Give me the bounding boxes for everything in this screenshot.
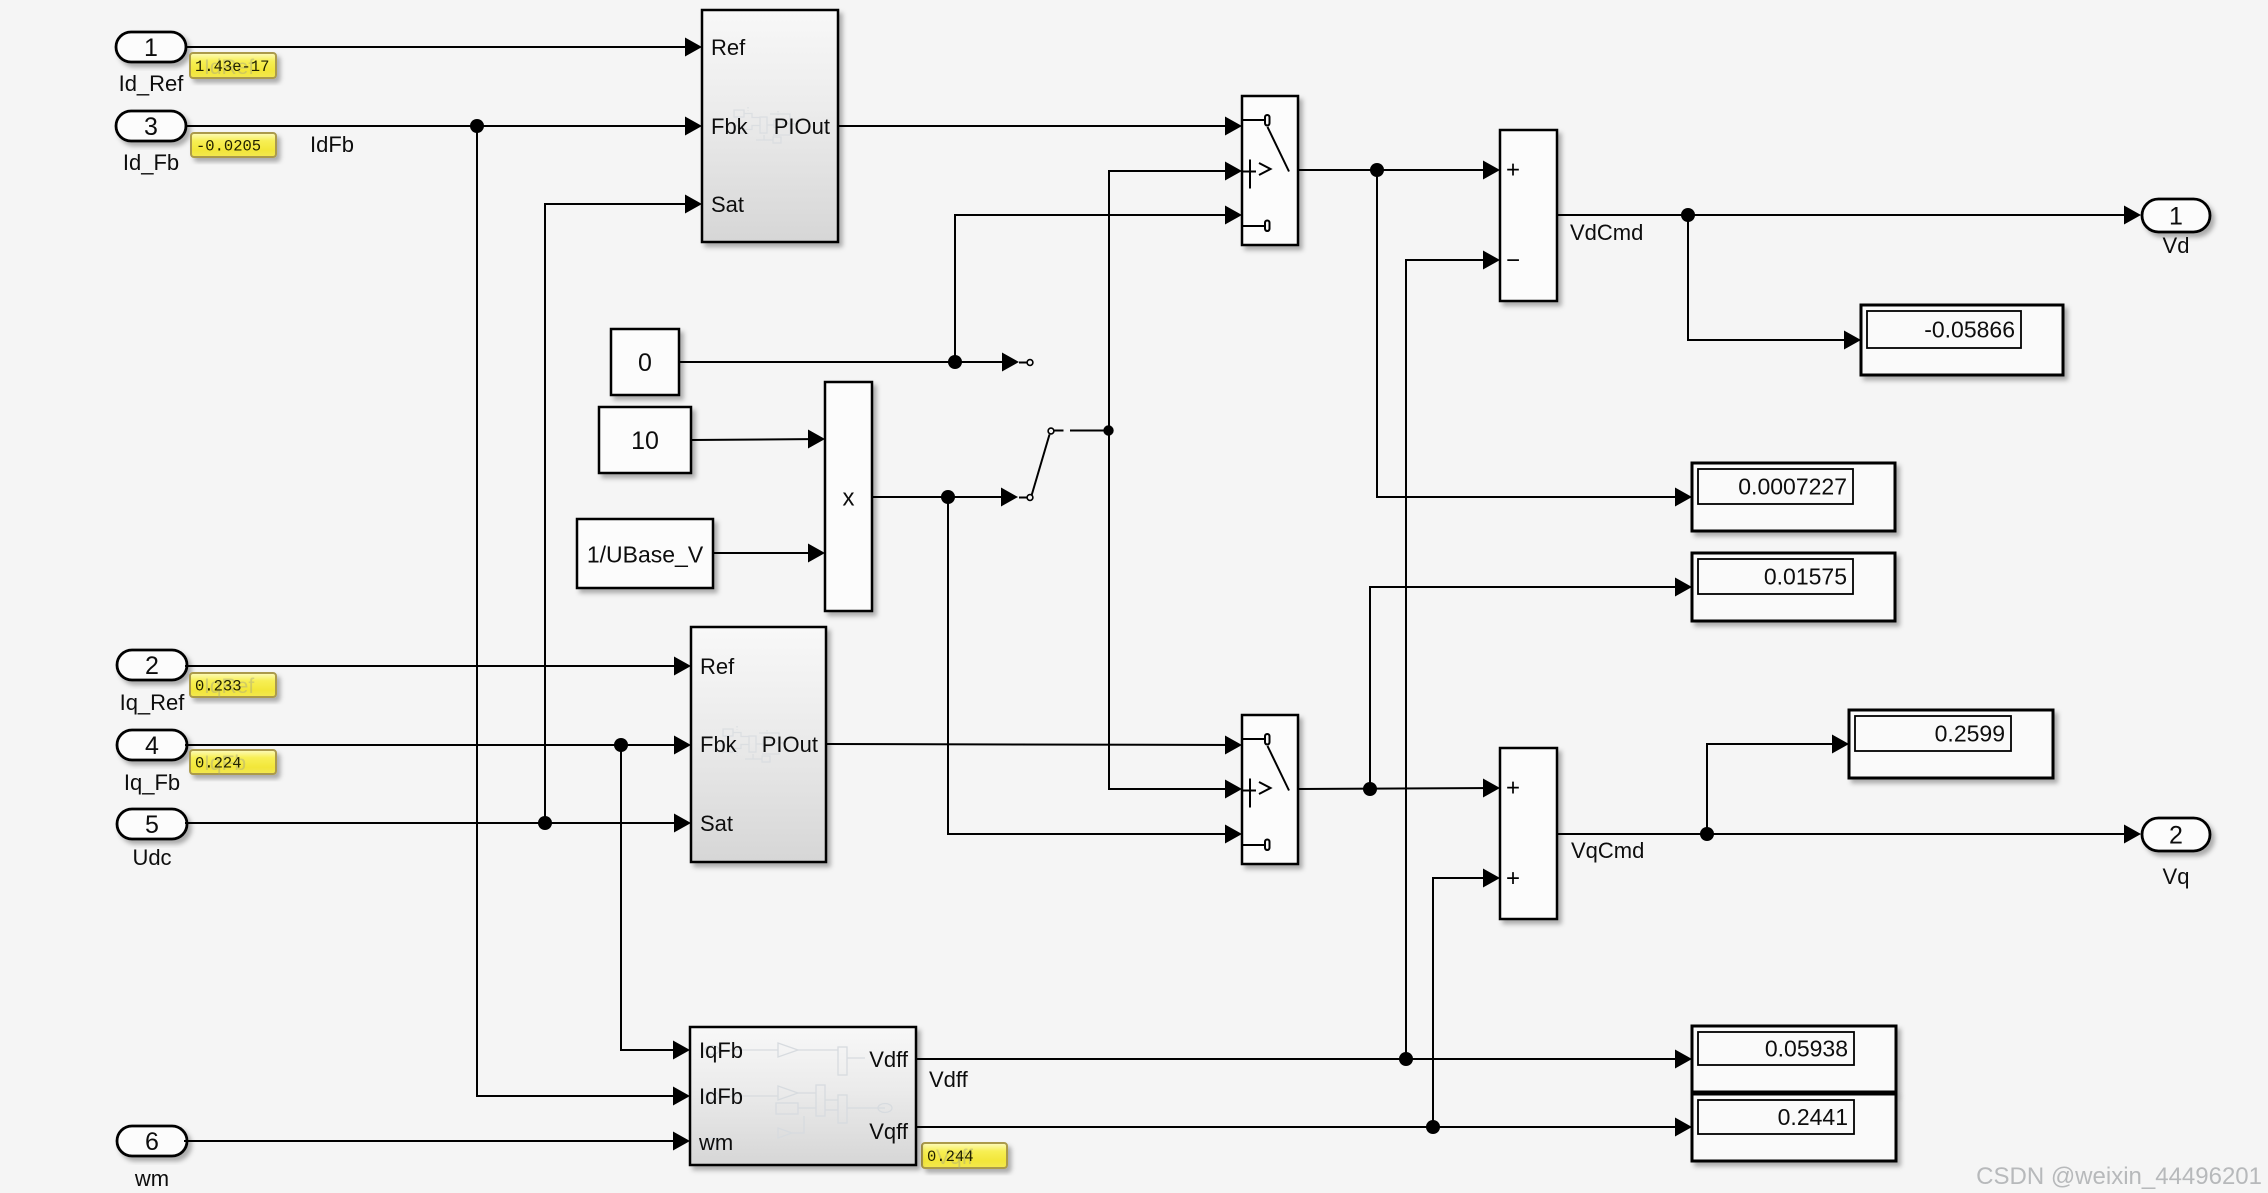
junction on Udc wire [538,816,552,830]
wire product out to manual switch throw [872,496,1016,498]
svg-text:10: 10 [631,427,659,455]
junction VqCmd [1700,827,1714,841]
manual switch lever [1032,435,1050,496]
svg-text:Vq: Vq [2163,864,2190,889]
feed-forward decoupling subsystem (IqFb/IdFb/wm -> Vdff/Vqff) [690,1027,916,1165]
junction on product out wire [941,490,955,504]
outport 1 Vd [2142,199,2210,258]
wire VqCmd branch to display 0.2599 [1707,744,1847,834]
display 0.2599 (VqCmd) [1849,710,2053,778]
wire manual switch to control bus [1055,430,1064,432]
PI controller subsystem U_d (Ref/Fbk/Sat -> PIOut) [702,10,838,242]
wire Id_Ref to PI_d Ref [186,46,700,48]
svg-text:Ref: Ref [711,35,746,60]
svg-text:0.0007227: 0.0007227 [1738,474,1847,500]
svg-text:0.224: 0.224 [195,755,242,773]
svg-text:Iq_Fb: Iq_Fb [124,770,180,795]
wire Vqff up to sum2 + (lower) [1433,878,1498,1127]
display -0.05866 (VdCmd) [1861,305,2063,375]
wire wm to FF wm [184,1140,688,1142]
svg-text:+: + [1506,157,1520,184]
svg-text:Vdff: Vdff [869,1047,909,1072]
svg-text:Vd: Vd [2163,233,2190,258]
wire control bus up to switch1 in2 [1109,171,1240,430]
wire FF Vdff to display 0.05938 [916,1058,1690,1060]
wire switch1 out to sum1 + [1298,169,1498,171]
display 0.01575 (switch2 out) [1692,553,1895,621]
svg-text:wm: wm [698,1130,733,1155]
manual switch open contact circle [1019,362,1027,364]
value label 0.224 on Iq_Fb [190,750,276,775]
sum block VqCmd (+ +) [1500,748,1557,919]
svg-text:2: 2 [2169,822,2183,850]
svg-text:1/UBase_V: 1/UBase_V [587,542,704,568]
svg-text:0.233: 0.233 [195,678,242,696]
svg-text:Iq_Ref: Iq_Ref [120,690,186,715]
svg-text:Fbk: Fbk [700,732,738,757]
constant 1/UBase_V [577,519,713,588]
junction on Id_Fb wire [470,119,484,133]
sum block VdCmd (+ -) [1500,130,1557,301]
wire switch2 out branch to display 0.01575 [1370,587,1690,789]
wire 1/UBase_V to product in2 [713,552,823,554]
wire Iq_Ref to PI_q Ref [185,665,689,667]
junction switch2 out [1363,782,1377,796]
svg-text:PIOut: PIOut [762,732,818,757]
inport 2 Iq_Ref [117,650,187,715]
wire constant0 branch up to switch1 in3 [955,215,1240,362]
svg-text:1: 1 [144,34,158,62]
svg-text:0.05938: 0.05938 [1765,1036,1848,1062]
wire Id_Fb to PI_d Fbk [186,125,700,127]
svg-text:Sat: Sat [700,811,733,836]
display 0.05938 (Vdff) [1692,1026,1896,1092]
wire constant0 to manual switch (open) [679,361,1017,363]
inport 6 wm [117,1126,187,1191]
junction on constant0 wire [948,355,962,369]
wire constant10 to product in1 [691,439,823,440]
wire sum2 out to outport Vq [1557,833,2139,835]
wire IqFb branch down to FF IqFb [621,745,688,1050]
svg-text:0.01575: 0.01575 [1764,564,1847,590]
wire sum1 out to outport Vd [1557,214,2139,216]
junction Vqff [1426,1120,1440,1134]
wire Vdff up to sum1 minus [1406,260,1498,1059]
wire Iq_Fb to PI_q Fbk [185,744,689,746]
wire VdCmd branch to display -0.05866 [1688,215,1859,340]
svg-text:IdFb: IdFb [310,132,354,157]
svg-text:Vqff: Vqff [869,1119,909,1144]
svg-text:Udc: Udc [132,845,171,870]
value label 1.43e-17 on Id_Ref [190,53,276,79]
svg-text:0.244: 0.244 [927,1148,974,1166]
svg-text:Fbk: Fbk [711,114,749,139]
svg-text:Id_Ref: Id_Ref [119,71,185,96]
svg-text:0.2599: 0.2599 [1935,721,2005,747]
inport 4 Iq_Fb [117,730,187,795]
svg-text:-0.0205: -0.0205 [196,138,261,156]
svg-text:0: 0 [638,349,652,377]
svg-text:VqCmd: VqCmd [1571,838,1644,863]
junction switch1 out [1370,163,1384,177]
svg-text:x: x [843,485,855,512]
svg-text:5: 5 [145,811,159,839]
svg-text:+: + [1506,865,1520,892]
svg-text:CSDN @weixin_44496201: CSDN @weixin_44496201 [1976,1163,2262,1190]
wire switch1 out branch to display 0.0007227 [1377,170,1690,497]
wire PI_q PIOut to switch2 in1 [826,744,1240,745]
constant 0 [611,329,679,395]
svg-text:PIOut: PIOut [774,114,830,139]
inport 1 Id_Ref [116,32,186,96]
svg-text:4: 4 [145,732,159,760]
svg-text:Vdff: Vdff [929,1067,969,1092]
wire PI_d PIOut to switch1 in1 [838,125,1240,127]
wire Udc branch up to PI_d Sat [545,204,700,823]
svg-text:Ref: Ref [700,654,735,679]
wire switch2 out to sum2 + [1298,788,1498,789]
wire product branch down to switch2 in3 [948,497,1240,834]
outport 2 Vq [2142,818,2210,889]
svg-text:IqFb: IqFb [699,1038,743,1063]
svg-text:−: − [1506,247,1520,274]
display 0.2441 (Vqff) [1692,1094,1896,1161]
value label -0.0205 on Id_Fb [191,133,276,157]
junction VdCmd [1681,208,1695,222]
svg-text:-0.05866: -0.05866 [1924,317,2015,343]
wire control bus down to switch2 in2 [1109,430,1240,789]
svg-text:2: 2 [145,652,159,680]
svg-text:0.2441: 0.2441 [1778,1104,1848,1130]
manual switch lower contact circle [1019,497,1027,499]
inport 5 Udc [117,809,187,870]
svg-text:Sat: Sat [711,192,744,217]
svg-text:Id_Fb: Id_Fb [123,150,179,175]
svg-text:VdCmd: VdCmd [1570,220,1643,245]
switch 1 (Vd path) [1242,96,1298,245]
constant 10 [599,407,691,473]
wire IdFb branch down to FF IdFb [477,126,688,1096]
junction on Iq_Fb wire [614,738,628,752]
PI controller subsystem U_q (Ref/Fbk/Sat -> PIOut) [691,627,826,862]
svg-text:3: 3 [144,113,158,141]
wire FF Vqff to display 0.2441 [916,1126,1690,1128]
manual switch upper contact circle [1048,428,1054,434]
svg-text:+: + [1506,775,1520,802]
value label 0.233 on Iq_Ref [190,673,276,698]
junction manual switch / control bus [1103,425,1113,435]
value label 0.244 on Vqff [922,1143,1007,1169]
svg-text:1.43e-17: 1.43e-17 [195,58,269,76]
wire Udc to PI_q Sat [185,822,689,824]
svg-text:IdFb: IdFb [699,1084,743,1109]
junction Vdff [1399,1052,1413,1066]
svg-text:6: 6 [145,1128,159,1156]
svg-text:wm: wm [134,1166,169,1191]
display 0.0007227 (switch1 out) [1692,463,1895,531]
svg-text:1: 1 [2169,203,2183,231]
product block x [825,382,872,611]
inport 3 Id_Fb [116,111,186,175]
switch 2 (Vq path) [1242,715,1298,864]
